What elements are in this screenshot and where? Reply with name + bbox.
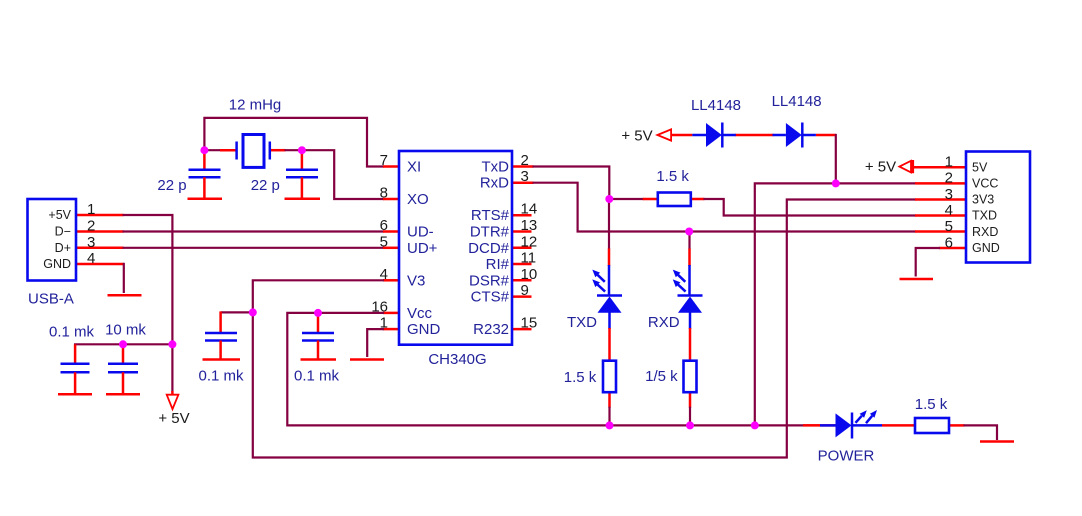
svg-text:D+: D+ — [55, 241, 71, 255]
svg-text:12: 12 — [521, 233, 538, 250]
svg-text:D−: D− — [55, 225, 71, 239]
diode D1 LL4148 — [692, 123, 736, 148]
IC left pin numbers — [371, 152, 388, 332]
+5V arrow right connector — [899, 160, 912, 173]
diode D2 LL4148 — [773, 123, 816, 148]
+5V arrow left (diodes) — [657, 129, 671, 140]
svg-text:13: 13 — [521, 217, 538, 234]
svg-text:POWER: POWER — [818, 448, 875, 465]
svg-text:1.5 k: 1.5 k — [915, 396, 948, 413]
IC right pin numbers — [521, 152, 538, 332]
wire RXD LED chain — [688, 232, 691, 426]
svg-text:4: 4 — [380, 266, 388, 283]
svg-text:V3: V3 — [407, 272, 425, 289]
wire USB D+ to UD+ — [76, 247, 399, 250]
wire TxD resistor row — [609, 199, 966, 216]
crystal Y1 12 mHg — [237, 135, 270, 168]
IC right pin names — [468, 159, 510, 339]
wire diode row red segments — [671, 134, 773, 137]
svg-text:Vcc: Vcc — [407, 305, 433, 322]
svg-text:12 mHg: 12 mHg — [229, 97, 282, 114]
+5V arrow down — [167, 395, 179, 409]
capacitor C5 0.1mk (V3) — [203, 333, 241, 360]
wire crystal top loop XI — [204, 118, 399, 167]
wire right connector 5V pin1 — [913, 166, 966, 169]
wire crystal right to XO — [270, 150, 399, 199]
LED TXD — [592, 270, 622, 313]
svg-text:22 p: 22 p — [157, 177, 186, 194]
svg-text:CTS#: CTS# — [471, 289, 510, 306]
svg-text:2: 2 — [521, 152, 529, 169]
wire RxD to RXD net — [512, 183, 966, 232]
capacitor C4 22p right — [285, 150, 321, 199]
svg-text:5: 5 — [945, 218, 953, 235]
resistor R4 1.5k (POWER) — [915, 418, 949, 433]
svg-text:1: 1 — [945, 154, 953, 171]
svg-text:3: 3 — [521, 168, 529, 185]
USB pin numbers — [87, 201, 95, 267]
svg-text:5: 5 — [380, 233, 388, 250]
svg-text:15: 15 — [521, 315, 538, 332]
wire LL4148 branch — [816, 135, 836, 183]
ground right connector — [900, 278, 934, 281]
svg-text:DTR#: DTR# — [470, 224, 510, 241]
svg-text:10: 10 — [521, 266, 538, 283]
wire IC GND pin1 — [367, 329, 399, 357]
svg-text:+ 5V: + 5V — [158, 410, 189, 427]
svg-text:GND: GND — [407, 321, 441, 338]
wire Vcc bypass cap branch — [317, 313, 320, 333]
svg-text:0.1 mk: 0.1 mk — [294, 368, 340, 385]
wire Vcc to +5V rail — [287, 313, 820, 426]
svg-text:+ 5V: + 5V — [621, 127, 652, 144]
svg-text:USB-A: USB-A — [28, 291, 74, 308]
resistor R1 1.5k (TxD pullup) — [658, 193, 691, 207]
svg-text:CH340G: CH340G — [428, 351, 486, 368]
svg-text:3: 3 — [945, 186, 953, 203]
connector USB-A — [28, 199, 77, 281]
wire TXD LED chain — [608, 198, 611, 425]
svg-text:DCD#: DCD# — [468, 240, 509, 257]
LED POWER — [820, 410, 882, 439]
svg-text:1: 1 — [87, 201, 95, 218]
svg-text:TXD: TXD — [567, 314, 597, 331]
svg-text:7: 7 — [380, 152, 388, 169]
svg-text:1/5 k: 1/5 k — [645, 368, 678, 385]
svg-text:XI: XI — [407, 159, 421, 176]
wire USB D- to UD- — [76, 230, 399, 233]
svg-text:1.5 k: 1.5 k — [656, 168, 689, 185]
svg-text:LL4148: LL4148 — [772, 93, 822, 110]
capacitor C6 0.1mk (Vcc) — [301, 333, 337, 360]
svg-text:GND: GND — [43, 257, 71, 271]
svg-text:DSR#: DSR# — [469, 272, 510, 289]
svg-text:TXD: TXD — [972, 209, 997, 223]
right connector pin numbers — [945, 154, 953, 252]
svg-text:UD-: UD- — [407, 224, 434, 241]
svg-text:0.1 mk: 0.1 mk — [198, 368, 244, 385]
wire +5V rail to bypass caps — [75, 343, 172, 346]
wire TxD to LED net — [512, 167, 609, 200]
wire POWER LED row — [803, 425, 997, 440]
LED RXD — [673, 270, 703, 313]
IC left pin names — [407, 159, 441, 339]
ground IC — [350, 358, 384, 361]
svg-text:0.1 mk: 0.1 mk — [49, 324, 95, 341]
svg-text:4: 4 — [945, 202, 953, 219]
capacitor C3 22p left — [188, 150, 223, 199]
wire V3 bypass cap branch — [221, 311, 253, 332]
ground USB — [108, 294, 142, 297]
svg-text:2: 2 — [87, 218, 95, 235]
svg-text:RI#: RI# — [486, 256, 510, 273]
svg-text:16: 16 — [371, 298, 388, 315]
ground POWER — [980, 440, 1014, 443]
svg-text:9: 9 — [521, 282, 529, 299]
svg-text:1.5 k: 1.5 k — [564, 369, 597, 386]
svg-text:2: 2 — [945, 170, 953, 187]
USB pin labels — [43, 208, 71, 271]
wire +5V vertical to VCC pin2 — [755, 183, 966, 425]
svg-text:22 p: 22 p — [251, 177, 280, 194]
svg-text:8: 8 — [380, 185, 388, 202]
svg-text:6: 6 — [945, 234, 953, 251]
svg-text:14: 14 — [521, 201, 538, 218]
svg-text:XO: XO — [407, 191, 429, 208]
wire USB GND pin4 down — [76, 263, 124, 293]
capacitor C1 0.1mk — [58, 344, 92, 394]
wire crystal left electrode — [204, 149, 236, 151]
wire V3 to 3V3 bottom rail — [253, 200, 966, 458]
svg-text:RXD: RXD — [648, 314, 680, 331]
svg-text:11: 11 — [521, 250, 537, 267]
IC U1 CH340G — [399, 151, 512, 345]
svg-text:UD+: UD+ — [407, 240, 438, 257]
connector J1 right header — [966, 152, 1030, 263]
svg-text:1: 1 — [380, 315, 388, 332]
svg-text:GND: GND — [972, 241, 1000, 255]
svg-text:+ 5V: + 5V — [865, 159, 896, 176]
svg-text:3: 3 — [87, 234, 95, 251]
svg-text:5V: 5V — [972, 160, 988, 174]
svg-text:RTS#: RTS# — [471, 207, 510, 224]
svg-text:RxD: RxD — [480, 175, 509, 192]
wire USB +5V pin1 to +5V net — [76, 215, 172, 345]
svg-text:10 mk: 10 mk — [105, 322, 146, 339]
svg-text:6: 6 — [380, 217, 388, 234]
right connector pin names — [972, 160, 1000, 255]
svg-text:VCC: VCC — [972, 176, 998, 190]
resistor R2 1.5k (TXD LED) — [603, 361, 616, 393]
svg-text:RXD: RXD — [972, 225, 998, 239]
svg-text:3V3: 3V3 — [972, 193, 994, 207]
svg-text:R232: R232 — [473, 321, 509, 338]
wire right connector GND pin6 — [916, 248, 966, 277]
svg-text:4: 4 — [87, 250, 95, 267]
svg-text:+5V: +5V — [48, 208, 71, 222]
svg-text:TxD: TxD — [482, 159, 510, 176]
capacitor C2 10mk — [106, 344, 140, 394]
resistor R3 1/5k (RXD LED) — [684, 361, 697, 393]
pin stubs RTS# DTR# DCD# RI# DSR# CTS# R232 — [512, 215, 532, 329]
svg-text:LL4148: LL4148 — [691, 97, 741, 114]
wire +5V arrow drop — [171, 344, 173, 394]
